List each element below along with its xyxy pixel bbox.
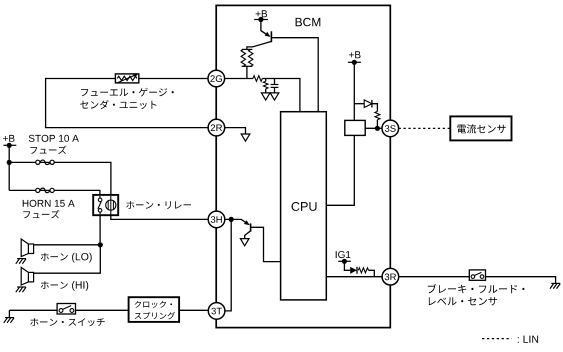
label HORN 15 A fuse [23,200,75,219]
diode D1 [354,100,377,112]
resistor R5 [358,268,374,277]
wire relay coil to CPU [326,135,354,205]
wire relay contact down to horn node [99,214,101,245]
wire horn LO to node [34,244,101,246]
connector 2R wire to ground [225,128,246,134]
label horn HI [41,281,88,291]
label horn switch [30,318,104,326]
node 3H junction [229,217,234,222]
resistor pair R1 (parallel) [241,49,253,78]
label fuel gauge sender unit text [80,88,174,109]
power +B (BCM right) [348,51,361,65]
relay K1 horn relay [93,195,118,215]
fuse F2 (HORN 15A) [36,188,55,193]
diode D2 [344,261,357,273]
wire +B to relay coil [353,62,355,120]
node connector 2G [208,70,225,87]
legend LIN dashed [482,336,538,343]
node connector 2R [208,119,225,136]
ground (C1) [270,93,279,100]
horn HI speaker [16,267,34,292]
ground (2R) [241,134,250,141]
ground (Q2) [240,239,249,246]
node connector 3H [208,211,225,228]
current sensor box [450,116,511,140]
wire Q2 base to CPU [251,227,281,261]
ground (brake fluid sensor) [550,283,560,288]
wire Q1 collector to CPU [271,38,318,112]
wire 3H into BCM [225,219,246,222]
wire CPU to 3R and brake fluid sensor [326,277,555,284]
switch SW1 horn switch [57,304,75,315]
switch SW2 brake fluid level sensor [469,270,485,280]
wire relay coil to 3H [111,214,208,219]
fuse STOP 10A row wire [9,162,111,200]
node horn junction [98,242,103,247]
transistor Q2 [244,220,251,238]
label brake fluid level sensor [428,284,525,305]
horn LO speaker [16,239,34,264]
resistor R2 [253,76,262,82]
capacitor C1 to ground [271,79,279,93]
label horn relay [126,201,191,209]
fuse F1 (STOP 10A) [36,160,55,165]
ground (R3) [261,93,270,100]
node connector 3R [382,268,399,285]
label STOP 10 A fuse [29,135,79,154]
ground horn switch [4,310,14,323]
wire horn switch row [9,309,128,311]
label horn LO [41,253,92,263]
wire 3H node down to 3T [225,219,231,311]
wire clock spring to 3T [179,309,208,311]
CPU U1 [281,112,327,300]
BCM module box [216,5,390,327]
transistor Q1 [247,20,272,50]
resistor R3 to ground [263,79,268,93]
node connector 3S [382,120,399,137]
node D1/R4 junction [375,126,380,131]
connector 2G wire into BCM [225,79,300,112]
node junction at stop fuse row [7,160,12,165]
relay coil L1 (box) [345,120,365,135]
wire +B down to fuse rows [8,145,10,190]
power +B (BCM top) [254,10,268,22]
wire LIN dashed 3S to current sensor [399,127,451,129]
fuse HORN 15A row wire [9,190,100,199]
wire horn HI to node [34,245,101,273]
wire fuel gauge loop top (2G to sender) [46,79,209,128]
clock spring box [129,297,180,322]
power IG1 [336,251,351,264]
resistor R4 [375,111,380,128]
fuel gauge sender unit (variable resistor) [115,74,138,83]
wire relay to 3S [365,127,382,129]
power +B (stop fuse feed) [3,135,16,148]
node connector 3T [208,303,225,320]
